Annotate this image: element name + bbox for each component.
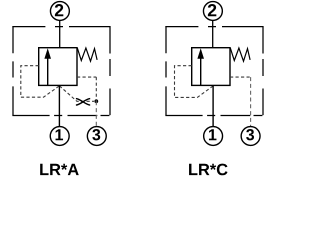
orifice X bbox=[76, 99, 90, 106]
port 3 circle bbox=[87, 127, 106, 146]
wire port 2 to valve body bbox=[59, 20, 61, 47]
pilot line spring chamber bbox=[230, 76, 251, 78]
model label LR*C bbox=[189, 164, 227, 176]
valve LR*A bbox=[12, 2, 110, 146]
valve LR*C bbox=[165, 2, 263, 146]
pilot line spring chamber bbox=[77, 76, 96, 78]
port 3 label bbox=[92, 129, 100, 140]
cartridge boundary right edge bbox=[262, 26, 264, 116]
port 2 label bbox=[55, 4, 63, 16]
cartridge boundary bottom edge bbox=[165, 115, 263, 117]
cartridge boundary bottom edge bbox=[12, 115, 110, 117]
port 1 label bbox=[56, 129, 64, 140]
flow arrow head bbox=[197, 48, 204, 59]
port 3 label bbox=[246, 129, 254, 140]
drain line to port 3 bbox=[250, 77, 252, 127]
flow arrow shaft bbox=[47, 57, 49, 86]
valve body U2 bbox=[192, 48, 230, 86]
flow arrow head bbox=[44, 48, 51, 59]
drain line spring chamber to junction bbox=[95, 77, 97, 101]
port 1 label bbox=[209, 129, 217, 140]
drain line junction to port 3 bbox=[95, 101, 97, 126]
spring bbox=[230, 48, 250, 61]
port 3 circle bbox=[241, 127, 260, 146]
wire port 2 to valve body bbox=[212, 20, 214, 47]
flow arrow shaft bbox=[200, 57, 202, 86]
junction dot node bbox=[94, 99, 98, 103]
port 1 circle bbox=[50, 127, 69, 146]
cartridge boundary right edge bbox=[109, 26, 111, 116]
model label LR*A bbox=[40, 164, 79, 175]
port 1 circle bbox=[204, 127, 223, 146]
port 2 circle bbox=[203, 2, 222, 21]
valve body U1 bbox=[39, 48, 77, 86]
pilot line from port 1 side bbox=[21, 66, 60, 98]
cartridge boundary top edge bbox=[165, 26, 263, 28]
wire valve body to port 1 bbox=[58, 85, 60, 126]
port 2 circle bbox=[50, 2, 69, 21]
wire valve body to port 1 bbox=[212, 85, 214, 126]
cartridge boundary left edge bbox=[165, 26, 167, 116]
port 2 label bbox=[208, 4, 216, 16]
cartridge boundary left edge bbox=[12, 26, 14, 116]
pilot line from port 1 side bbox=[175, 66, 214, 98]
pilot line through orifice bbox=[59, 86, 94, 102]
cartridge boundary top edge bbox=[12, 26, 110, 28]
spring bbox=[77, 48, 97, 61]
